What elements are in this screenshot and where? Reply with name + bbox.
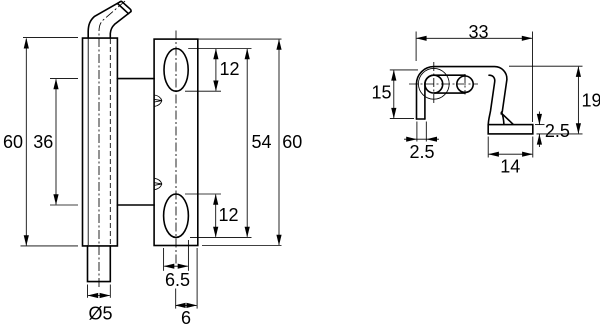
mounting plate	[154, 39, 198, 245]
curl outer arc + top arm outer	[417, 67, 507, 114]
dim 60 left: extension top	[23, 37, 78, 39]
dim 19: arrows	[576, 66, 581, 77]
svg-text:36: 36	[33, 132, 53, 152]
plate centerline	[175, 31, 177, 265]
dim 12 top: extension upper	[188, 48, 251, 50]
dim 6: extension left (centerline extended)	[175, 289, 177, 309]
bent rod top left outline	[88, 2, 120, 38]
dim 33: line	[417, 37, 532, 39]
svg-text:33: 33	[468, 22, 488, 42]
svg-text:60: 60	[3, 132, 23, 152]
dim 2.5 right: arrow top	[538, 112, 540, 125]
slot bottom	[164, 194, 189, 237]
curl reference circle large (thin)	[418, 68, 449, 99]
top arm inner	[488, 75, 494, 124]
hidden line pin left inside sleeve	[87, 39, 89, 245]
dim 54: arrows	[245, 49, 250, 60]
dim 2.5 bottom-left: extension left	[416, 122, 418, 142]
diagonal right line blend into foot	[502, 112, 504, 124]
rod end circle right (thick)	[457, 76, 473, 92]
dim 6: arrows	[175, 303, 186, 308]
dim 2.5 bottom-left: extension right	[425, 122, 427, 142]
dim 2.5 bottom-left: arrows	[406, 137, 417, 142]
dim 12 bottom: extension lower	[190, 236, 252, 238]
dim 15: arrows	[391, 70, 396, 81]
dim 2.5 bottom-left: line	[404, 138, 439, 140]
dim 15: extension bottom	[390, 118, 414, 120]
pin sleeve body	[83, 38, 118, 246]
dim 6: extension right	[196, 248, 198, 309]
dim 54: line	[246, 49, 248, 237]
weld nub upper	[154, 95, 162, 106]
dim Ø5: arrows	[88, 293, 99, 298]
dim 36: arrows	[53, 79, 58, 90]
dim 6.5: extension right	[187, 240, 189, 271]
dim Ø5: line	[88, 295, 110, 297]
dim 12 top: arrows	[213, 49, 218, 60]
svg-text:2.5: 2.5	[545, 121, 570, 141]
dim 15: line	[393, 70, 395, 118]
svg-text:12: 12	[219, 205, 239, 225]
pin lower narrow section	[88, 246, 111, 282]
dim 60 right: extension top	[198, 38, 282, 40]
dim 19: extension top	[509, 65, 583, 67]
dim 6.5: line	[164, 265, 188, 267]
svg-text:19: 19	[582, 91, 600, 111]
dim 19: line	[577, 67, 579, 134]
dim 60 left: extension bottom	[21, 245, 79, 247]
dim 60 right: line	[278, 40, 280, 245]
dim 36: extension top	[50, 78, 78, 80]
rod tangent bottom	[435, 92, 466, 94]
connector pin-to-plate lower	[117, 204, 154, 206]
pin hole circle (thin)	[425, 75, 443, 93]
dim 60 left: line	[25, 39, 27, 246]
dim 14: line	[489, 153, 532, 155]
dim 60 right: extension bottom	[202, 245, 282, 247]
svg-text:Ø5: Ø5	[88, 304, 112, 324]
weld nub lower	[154, 178, 162, 189]
dim 6.5: extension left	[163, 248, 165, 271]
leg inner line	[424, 84, 426, 119]
foot flange	[488, 125, 533, 134]
dim 14: extension right	[532, 137, 534, 158]
rod tangent top	[434, 74, 465, 76]
dim 60 left: arrows	[24, 38, 29, 49]
dim 19: extension bottom	[537, 133, 583, 135]
pin centerline	[99, 0, 129, 287]
weld fillet	[501, 113, 513, 124]
dim 60 right: arrows	[276, 39, 281, 50]
dim 6.5: arrows	[164, 264, 175, 269]
hidden line pin right inside sleeve	[109, 39, 111, 245]
dim 36: line	[55, 79, 57, 204]
dim 2.5 right: extension top	[535, 124, 545, 126]
dim 12 top: extension lower	[185, 90, 221, 92]
bent rod top right outline	[110, 12, 131, 38]
svg-text:12: 12	[220, 59, 240, 79]
svg-text:54: 54	[252, 132, 272, 152]
dim 33: arrows	[416, 36, 427, 41]
svg-text:6.5: 6.5	[165, 270, 190, 290]
dim 14: arrows	[488, 152, 499, 157]
curl horizontal centerline	[409, 83, 478, 85]
dim Ø5: extension right	[109, 285, 111, 298]
rod end vertical centerline	[464, 74, 466, 95]
curl inner arc over pin	[425, 75, 434, 84]
dim 12 bottom: arrows	[213, 194, 218, 205]
leg bottom cap	[417, 118, 425, 120]
dim 15: extension top	[390, 69, 418, 71]
svg-text:2.5: 2.5	[409, 142, 434, 162]
connector pin-to-plate upper	[117, 78, 154, 80]
svg-text:15: 15	[371, 82, 391, 102]
dim 36: extension bottom	[50, 204, 78, 206]
dim 12 bottom: line	[215, 195, 217, 237]
dim 33: extension right	[532, 32, 534, 123]
dim 33: extension left	[415, 32, 417, 62]
dim 12 bottom: extension upper	[185, 193, 221, 195]
dim 2.5 right: arrow bottom	[538, 134, 540, 147]
dim Ø5: extension left	[87, 285, 89, 298]
dim 6: line	[176, 304, 197, 306]
bent rod tip end face	[120, 1, 131, 11]
dim 14: extension left	[487, 137, 489, 158]
svg-text:60: 60	[282, 132, 302, 152]
svg-text:6: 6	[181, 308, 191, 325]
bent rod tip inner edge	[118, 4, 129, 14]
curl vertical centerline	[433, 62, 435, 105]
svg-text:14: 14	[500, 156, 520, 176]
leg outer line	[416, 84, 418, 119]
dim 12 top: line	[215, 49, 217, 91]
slot top	[164, 49, 188, 92]
